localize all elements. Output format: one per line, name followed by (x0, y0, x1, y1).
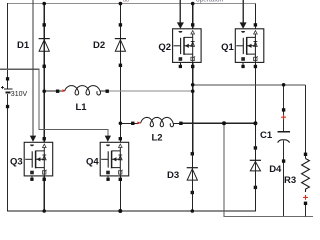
node top rail / Q2 drain (191, 2, 195, 6)
node bottom rail / Q3 source (42, 209, 46, 213)
wire top rail (8, 3, 256, 5)
node bottom rail / D3 (191, 209, 195, 213)
diode D2 (93, 23, 126, 67)
voltage source V1 310V battery (1, 77, 27, 108)
gate arrow Q3 (30, 136, 36, 142)
Q3 source terminal (43, 178, 46, 181)
wire battery positive lead (7, 3, 9, 77)
svg-text:Q4: Q4 (86, 156, 99, 167)
transistor Q3 (10, 142, 53, 176)
wire D3 anode to bottom rail (191, 194, 193, 211)
wire D3 internal lead (191, 152, 193, 194)
wire battery negative lead to bottom rail (7, 108, 9, 211)
transistor Q1 (221, 29, 264, 63)
wire Q3 source to bottom rail (43, 176, 45, 211)
wire Q1 source down through output node to D4 (254, 62, 256, 146)
wire D2 / Q4 drain vertical (119, 4, 121, 143)
wire L2 right to Q1 source node (181, 122, 256, 124)
wire bottom rail (7, 210, 255, 212)
capacitor C1 (260, 108, 290, 163)
Q2 source terminal (191, 65, 194, 68)
svg-text:D2: D2 (93, 40, 105, 51)
svg-text:D1: D1 (17, 40, 30, 51)
Q4 drain terminal (119, 137, 122, 140)
diode D3 (167, 152, 198, 194)
node C1 tap on output feed (282, 83, 286, 87)
wire C1 top lead (283, 85, 285, 109)
wire Q2 source down to D3 (192, 62, 194, 152)
wire D4 internal lead (254, 146, 256, 189)
wire node A: D1 to L1 left (44, 90, 57, 92)
wire return: output node down at x224 (gray) (223, 123, 225, 217)
diode D4 (250, 146, 282, 189)
Q2/Q1 gate stubs below box (32, 62, 243, 177)
wire R3 bottom lead (305, 205, 307, 217)
wire L1 right to Q2 source node (gray) (107, 90, 193, 92)
svg-text:operation: operation (196, 0, 223, 4)
svg-text:Q2: Q2 (158, 42, 171, 53)
wire upper output feed to C1/R3 (193, 84, 306, 86)
node D1-L1 junction (42, 89, 46, 93)
Q1 source terminal (254, 65, 257, 68)
svg-text:Q1: Q1 (221, 42, 234, 53)
wire C1 between plus and plate (283, 112, 285, 132)
wire gate drive Q3 (from top edge) (32, 0, 34, 137)
gate arrow Q1 (240, 22, 247, 28)
wire D4 anode to bottom rail (254, 189, 256, 211)
resistor R3 (284, 153, 309, 205)
node top rail / D1 (42, 2, 46, 6)
wire Q1 drain stub from rail corner (254, 4, 256, 29)
node bottom rail / Q4 source (118, 209, 122, 213)
node L1 right at Q2 source line (191, 89, 195, 93)
wire D1 / Q3 drain vertical (43, 4, 45, 143)
svg-text:R3: R3 (284, 175, 296, 186)
inductor L2 (131, 117, 182, 143)
svg-text:ab: ab (123, 0, 129, 3)
svg-text:D4: D4 (269, 164, 282, 175)
wire Q4 source to bottom rail (119, 176, 121, 211)
wire gate drive Q2 (from top edge) (179, 0, 181, 23)
wire gate drive Q1 (from top edge) (242, 0, 244, 23)
svg-text:D3: D3 (167, 170, 179, 181)
svg-text:L1: L1 (75, 102, 87, 113)
Q3 bottom-left terminal (30, 178, 33, 181)
Q4 bottom-left terminal (106, 178, 109, 181)
diode D1 (17, 23, 50, 68)
wire R3 top lead (305, 156, 307, 159)
transistor Q4 (86, 142, 129, 176)
node top rail / D2 (119, 2, 123, 6)
Q2 bottom-left terminal (179, 65, 182, 68)
Q4 source terminal (119, 178, 122, 181)
wire C1 bottom lead (283, 141, 285, 217)
svg-text:L2: L2 (151, 133, 162, 144)
wire R3 feed down from upper wire (305, 85, 307, 153)
Q1 drain terminal (254, 23, 257, 26)
wire L2 left to D2 line (120, 122, 132, 124)
node Q2 source / output feed (191, 83, 195, 87)
wire gray bottom rail (224, 216, 313, 218)
svg-text:310V: 310V (11, 91, 28, 98)
Q1 bottom-left terminal (241, 65, 244, 68)
wire gate drive path to Q4 (from left edge) (0, 69, 108, 136)
gate arrow Q2 (177, 22, 184, 28)
wire Q2 drain stub (192, 4, 194, 29)
node L2 right / Q1 source (253, 121, 257, 125)
inductor L1 (56, 86, 109, 113)
node output return tap x224 (222, 121, 226, 125)
svg-text:Q3: Q3 (10, 156, 23, 167)
node L2 left / D2 line (119, 122, 123, 126)
transistor Q2 (158, 29, 201, 63)
gate arrow Q4 (105, 136, 111, 142)
Q2 drain terminal (191, 23, 194, 26)
Q3 drain terminal (43, 137, 46, 140)
svg-text:C1: C1 (260, 130, 273, 141)
